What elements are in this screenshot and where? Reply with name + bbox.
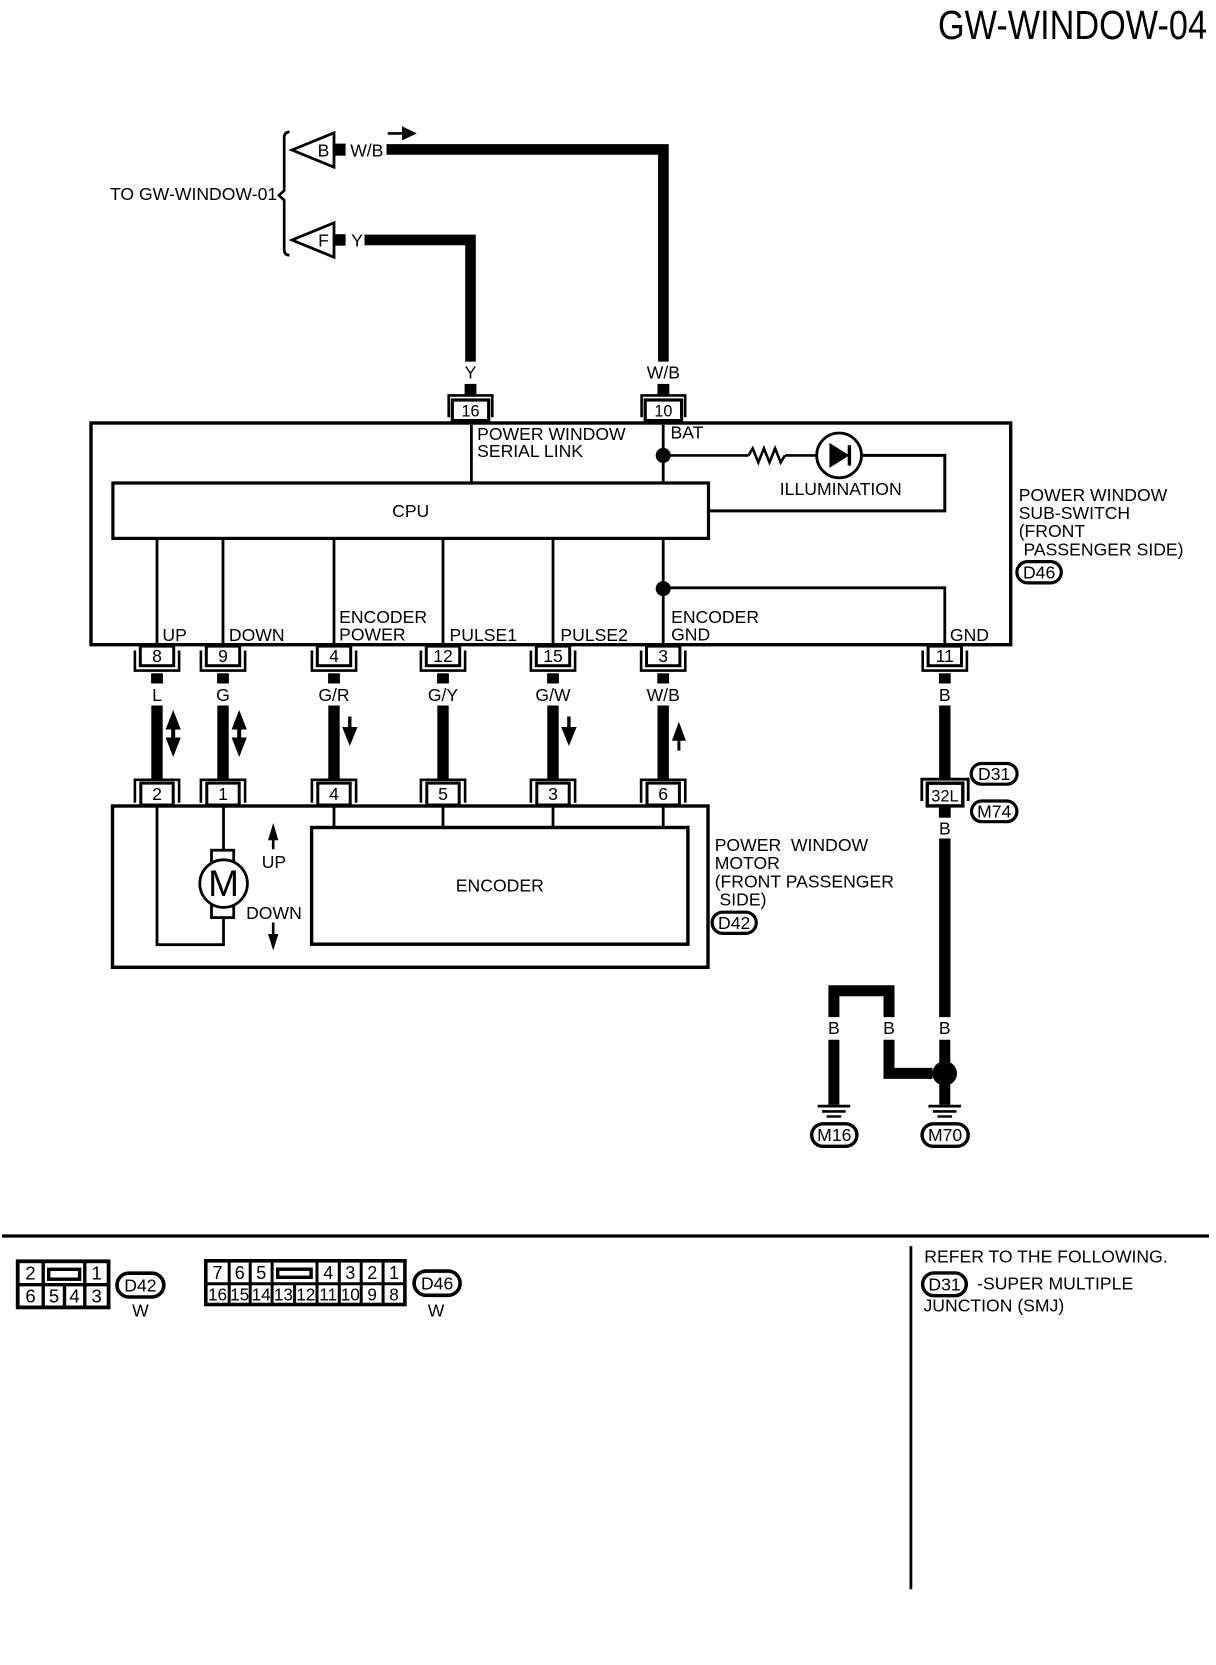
connector oval D46 (face) xyxy=(414,1271,460,1295)
svg-text:3: 3 xyxy=(658,646,668,666)
svg-text:TO GW-WINDOW-01: TO GW-WINDOW-01 xyxy=(110,184,277,204)
svg-text:B: B xyxy=(883,1018,895,1038)
connector oval D42 (face) xyxy=(117,1273,164,1297)
box: POWER WINDOW SUB-SWITCH (D46) xyxy=(91,423,1011,645)
svg-text:3: 3 xyxy=(345,1263,355,1283)
LED triangle xyxy=(829,443,849,468)
svg-text:16: 16 xyxy=(208,1284,227,1304)
pin 16 (sub-switch top) xyxy=(449,384,493,421)
arrow up on wire W/B xyxy=(672,722,686,751)
svg-text:B: B xyxy=(939,819,951,839)
svg-text:BAT: BAT xyxy=(671,423,704,443)
svg-text:11: 11 xyxy=(319,1284,337,1304)
svg-text:3: 3 xyxy=(548,784,558,804)
svg-text:D42: D42 xyxy=(718,913,750,933)
svg-text:PASSENGER SIDE): PASSENGER SIDE) xyxy=(1024,539,1184,559)
wire W/B from triangle B to pin 10 xyxy=(387,149,664,361)
svg-text:Y: Y xyxy=(351,230,363,250)
connector face D46 xyxy=(206,1261,405,1305)
connector oval D46 xyxy=(1017,562,1061,583)
op-amp/IC: CPU box xyxy=(113,483,709,538)
svg-text:POWER: POWER xyxy=(339,625,405,645)
LED cathode bar xyxy=(848,445,851,465)
svg-text:W/B: W/B xyxy=(647,363,680,383)
connector oval D31 (refer) xyxy=(923,1273,967,1296)
pin 2 (motor top) xyxy=(135,780,179,805)
svg-text:3: 3 xyxy=(92,1286,102,1307)
label POWER WINDOW SUB-SWITCH (FRONT PASSENGER SIDE) xyxy=(1019,485,1184,560)
ground oval M16 xyxy=(812,1124,857,1147)
svg-text:POWER WINDOW: POWER WINDOW xyxy=(715,835,869,855)
motor M1 body rect xyxy=(212,850,234,917)
pin 1 (motor top) xyxy=(201,780,245,805)
svg-text:REFER TO THE FOLLOWING.: REFER TO THE FOLLOWING. xyxy=(924,1246,1167,1266)
svg-text:L: L xyxy=(152,685,162,705)
wire (thick) sub-switch to motor xyxy=(217,706,228,779)
wire (thick) sub-switch to motor xyxy=(658,706,669,779)
svg-text:POWER WINDOW: POWER WINDOW xyxy=(1019,485,1168,505)
svg-text:G: G xyxy=(216,685,230,705)
pin 10 (sub-switch top) xyxy=(642,384,686,421)
wire encoder gnd to pin 11 xyxy=(670,586,945,644)
svg-text:(FRONT: (FRONT xyxy=(1019,521,1086,541)
pin stub of triangle B xyxy=(334,144,346,156)
svg-text:16: 16 xyxy=(461,403,479,421)
svg-text:9: 9 xyxy=(218,646,228,666)
svg-text:W/B: W/B xyxy=(350,140,383,160)
svg-text:11: 11 xyxy=(936,646,954,666)
svg-text:5: 5 xyxy=(256,1263,266,1283)
junction node at BAT xyxy=(656,448,671,463)
wire: pin 10 down to CPU xyxy=(662,425,665,483)
LED illumination bulb (circle) xyxy=(817,433,862,478)
wire resistor to LED xyxy=(785,454,817,457)
wire motor pin to encoder xyxy=(552,806,555,828)
pin 9 (sub-switch bottom) xyxy=(201,646,245,684)
wire B to M16 ground xyxy=(828,1040,839,1105)
wire pin1 to motor top xyxy=(222,806,225,850)
svg-text:D46: D46 xyxy=(1023,562,1055,582)
svg-text:12: 12 xyxy=(296,1284,315,1304)
wire bridge (B ground loop) xyxy=(834,991,889,1017)
svg-text:MOTOR: MOTOR xyxy=(715,853,780,873)
arrow down on wire G/R xyxy=(342,717,357,747)
connector triangle B xyxy=(292,133,334,167)
svg-text:10: 10 xyxy=(341,1284,360,1304)
svg-text:CPU: CPU xyxy=(392,501,429,521)
label POWER WINDOW MOTOR (FRONT PASSENGER SIDE) xyxy=(715,835,894,910)
pin 12 (sub-switch bottom) xyxy=(421,646,465,684)
wire pin2 to motor (down-left loop) xyxy=(157,806,224,945)
svg-text:SUB-SWITCH: SUB-SWITCH xyxy=(1019,503,1130,523)
svg-text:G/Y: G/Y xyxy=(428,685,459,705)
wire B to M70 ground xyxy=(939,1040,950,1105)
svg-text:GND: GND xyxy=(950,625,989,645)
wire B from 32L down xyxy=(939,839,950,1018)
svg-text:5: 5 xyxy=(438,784,448,804)
wire (thick) sub-switch to motor xyxy=(151,706,162,779)
svg-text:9: 9 xyxy=(367,1284,377,1304)
label POWER WINDOW SERIAL LINK xyxy=(477,424,626,461)
svg-text:8: 8 xyxy=(389,1284,399,1304)
arrow down on wire G/W xyxy=(561,717,576,747)
svg-text:2: 2 xyxy=(367,1263,377,1283)
svg-text:G/W: G/W xyxy=(535,685,571,705)
svg-text:GND: GND xyxy=(671,625,710,645)
arrow DOWN (motor direction) xyxy=(268,923,278,951)
pin 4 (motor top) xyxy=(312,780,356,805)
svg-text:GW-WINDOW-04: GW-WINDOW-04 xyxy=(938,2,1207,48)
wire motor pin to encoder xyxy=(442,806,445,828)
svg-text:SERIAL LINK: SERIAL LINK xyxy=(477,441,583,461)
wire CPU to pin column 5 xyxy=(552,538,555,644)
wire CPU to pin column 4 xyxy=(442,538,445,644)
svg-text:B: B xyxy=(828,1018,840,1038)
ground symbol M16 xyxy=(818,1106,851,1116)
connector triangle F xyxy=(292,223,334,257)
pin 5 (motor top) xyxy=(421,780,465,805)
svg-text:SIDE): SIDE) xyxy=(720,890,767,910)
wire (thick) sub-switch to motor xyxy=(437,706,448,779)
label ENCODER GND xyxy=(671,607,759,645)
svg-text:M16: M16 xyxy=(817,1125,851,1145)
connector oval M74 (at 32L) xyxy=(972,801,1017,822)
svg-text:Y: Y xyxy=(465,363,477,383)
svg-text:12: 12 xyxy=(433,646,453,666)
pin 4 (sub-switch bottom) xyxy=(312,646,356,684)
svg-text:4: 4 xyxy=(323,1263,333,1283)
svg-text:2: 2 xyxy=(152,784,162,804)
svg-text:15: 15 xyxy=(543,646,563,666)
svg-text:W: W xyxy=(132,1301,149,1321)
svg-text:32L: 32L xyxy=(931,788,958,806)
svg-text:10: 10 xyxy=(654,403,672,421)
pin 6 (motor top) xyxy=(641,780,685,805)
wire B middle to junction xyxy=(889,1040,933,1074)
box: POWER WINDOW MOTOR (D42) xyxy=(113,806,709,967)
horizontal rule xyxy=(2,1234,1209,1237)
wire CPU to pin column 1 xyxy=(156,538,159,644)
junction node ENCODER GND xyxy=(656,581,671,596)
pin 11 (sub-switch bottom) xyxy=(923,646,967,684)
pin 15 (sub-switch bottom) xyxy=(531,646,575,684)
svg-text:4: 4 xyxy=(69,1286,79,1307)
arrow up/down on wire G xyxy=(232,710,247,757)
encoder box xyxy=(312,828,688,945)
svg-text:F: F xyxy=(318,230,329,250)
svg-text:B: B xyxy=(939,685,951,705)
ground symbol M70 xyxy=(928,1106,961,1116)
arrow up/down on wire L xyxy=(166,710,181,757)
svg-text:14: 14 xyxy=(252,1284,272,1304)
connector oval D31 (at 32L) xyxy=(971,764,1017,785)
wire CPU to pin column 3 xyxy=(333,538,336,644)
wire (thick) sub-switch to motor xyxy=(328,706,339,779)
wire motor pin to encoder xyxy=(333,806,336,828)
svg-text:-SUPER MULTIPLE: -SUPER MULTIPLE xyxy=(977,1273,1133,1293)
wire motor pin to encoder xyxy=(662,806,665,828)
wire from BAT node to resistor xyxy=(670,454,749,457)
motor M1 circle xyxy=(200,860,248,908)
svg-text:15: 15 xyxy=(230,1284,249,1304)
pin 3 (motor top) xyxy=(531,780,575,805)
label ENCODER POWER xyxy=(339,607,427,645)
wire LED to CPU (illumination return) xyxy=(710,455,945,511)
pin 8 (sub-switch bottom) xyxy=(135,646,179,684)
svg-text:M74: M74 xyxy=(977,802,1011,822)
svg-text:4: 4 xyxy=(329,646,339,666)
wire B pin 11 to 32L xyxy=(939,706,950,779)
svg-text:D31: D31 xyxy=(978,764,1010,784)
arrow UP (motor direction) xyxy=(268,823,278,849)
svg-text:D42: D42 xyxy=(124,1275,156,1295)
wire CPU to pin column 6 xyxy=(662,538,665,644)
pin 3 (sub-switch bottom) xyxy=(641,646,685,684)
pin stub of triangle F xyxy=(334,234,346,246)
svg-text:6: 6 xyxy=(25,1286,35,1307)
svg-text:DOWN: DOWN xyxy=(229,625,285,645)
svg-text:M70: M70 xyxy=(928,1125,962,1145)
svg-text:UP: UP xyxy=(162,625,186,645)
svg-text:2: 2 xyxy=(25,1263,35,1284)
svg-text:7: 7 xyxy=(212,1263,222,1283)
svg-text:PULSE2: PULSE2 xyxy=(560,625,627,645)
svg-text:1: 1 xyxy=(389,1263,399,1283)
wire Y from triangle F to pin 16 xyxy=(365,240,471,362)
svg-text:13: 13 xyxy=(274,1284,293,1304)
svg-text:W/B: W/B xyxy=(647,685,680,705)
svg-text:JUNCTION (SMJ): JUNCTION (SMJ) xyxy=(924,1296,1065,1316)
svg-text:ILLUMINATION: ILLUMINATION xyxy=(780,479,902,499)
svg-text:DOWN: DOWN xyxy=(246,903,302,923)
svg-text:1: 1 xyxy=(218,784,228,804)
wire (thick) sub-switch to motor xyxy=(547,706,558,779)
svg-text:6: 6 xyxy=(658,784,668,804)
svg-text:PULSE1: PULSE1 xyxy=(450,625,517,645)
connector face D42 xyxy=(18,1261,109,1307)
svg-text:8: 8 xyxy=(152,646,162,666)
svg-text:D46: D46 xyxy=(421,1273,453,1293)
wire CPU to pin column 2 xyxy=(222,538,225,644)
svg-text:W: W xyxy=(428,1301,445,1321)
svg-text:B: B xyxy=(939,1018,951,1038)
svg-text:4: 4 xyxy=(329,784,339,804)
bracket to GW-WINDOW-01 xyxy=(279,132,290,255)
resistor (illumination) xyxy=(749,448,785,462)
svg-text:1: 1 xyxy=(92,1263,102,1284)
svg-text:B: B xyxy=(318,140,330,160)
connector oval D42 xyxy=(712,912,756,933)
svg-text:ENCODER: ENCODER xyxy=(456,876,544,896)
ground oval M70 xyxy=(922,1124,968,1147)
wire: serial link divider (pin16 to CPU) xyxy=(470,425,473,483)
arrow (direction) on W/B wire xyxy=(388,126,417,140)
svg-text:G/R: G/R xyxy=(318,685,349,705)
svg-text:UP: UP xyxy=(262,852,286,872)
vertical separator xyxy=(910,1246,913,1589)
svg-text:5: 5 xyxy=(49,1286,59,1307)
svg-text:D31: D31 xyxy=(928,1275,960,1295)
svg-text:M: M xyxy=(208,863,239,904)
junction node (grounds) xyxy=(932,1061,957,1086)
svg-text:(FRONT PASSENGER: (FRONT PASSENGER xyxy=(715,871,894,891)
svg-text:6: 6 xyxy=(235,1263,245,1283)
connector 32L (SMJ) xyxy=(922,779,968,818)
